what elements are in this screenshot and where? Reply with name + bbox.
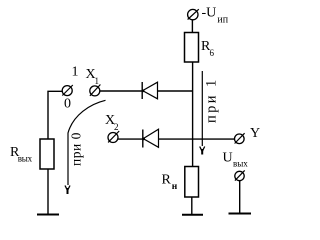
wire [118,138,143,140]
svg-text:1: 1 [95,76,100,86]
wire [159,138,235,140]
wire [191,20,193,33]
label R6 [201,39,215,58]
svg-text:0: 0 [64,97,71,112]
wire [100,90,142,92]
diode VD2 [142,129,158,147]
svg-text:ип: ип [217,14,228,25]
terminal Y [235,133,245,143]
wire [158,90,193,92]
resistor Rвых [40,139,54,169]
svg-text:2: 2 [114,122,119,132]
ground [182,214,203,216]
label Rн [162,173,178,193]
terminal Uвых [235,170,245,180]
terminal X1 [90,85,101,96]
annotation при 0 [65,100,106,194]
ground [37,214,59,216]
svg-text:6: 6 [210,48,215,58]
svg-text:вых: вых [18,154,33,164]
svg-text:R: R [162,173,172,188]
wire [239,181,241,213]
resistor R6 [185,33,199,63]
svg-text:U: U [223,150,233,165]
svg-text:1: 1 [72,65,79,80]
svg-text:н: н [172,182,178,192]
wire [48,91,62,139]
label X1 [86,67,100,86]
label X2 [105,113,119,132]
svg-text:при 1: при 1 [204,77,220,123]
terminal -Uип [188,9,199,20]
resistor Rн [185,167,199,198]
diode VD1 [142,82,158,99]
svg-text:-U: -U [202,5,217,20]
wire [191,197,193,214]
svg-text:вых: вых [233,159,248,169]
ground [229,213,252,215]
wire [47,169,49,214]
svg-text:при 0: при 0 [69,132,84,166]
svg-text:Y: Y [250,126,260,141]
label Uвых [223,150,249,168]
terminal 1/0 [62,85,73,96]
label -Uип [202,5,229,25]
label Rвых [10,145,33,164]
annotation при 1 [200,71,220,155]
wire [192,62,194,167]
terminal X2 [108,131,119,143]
